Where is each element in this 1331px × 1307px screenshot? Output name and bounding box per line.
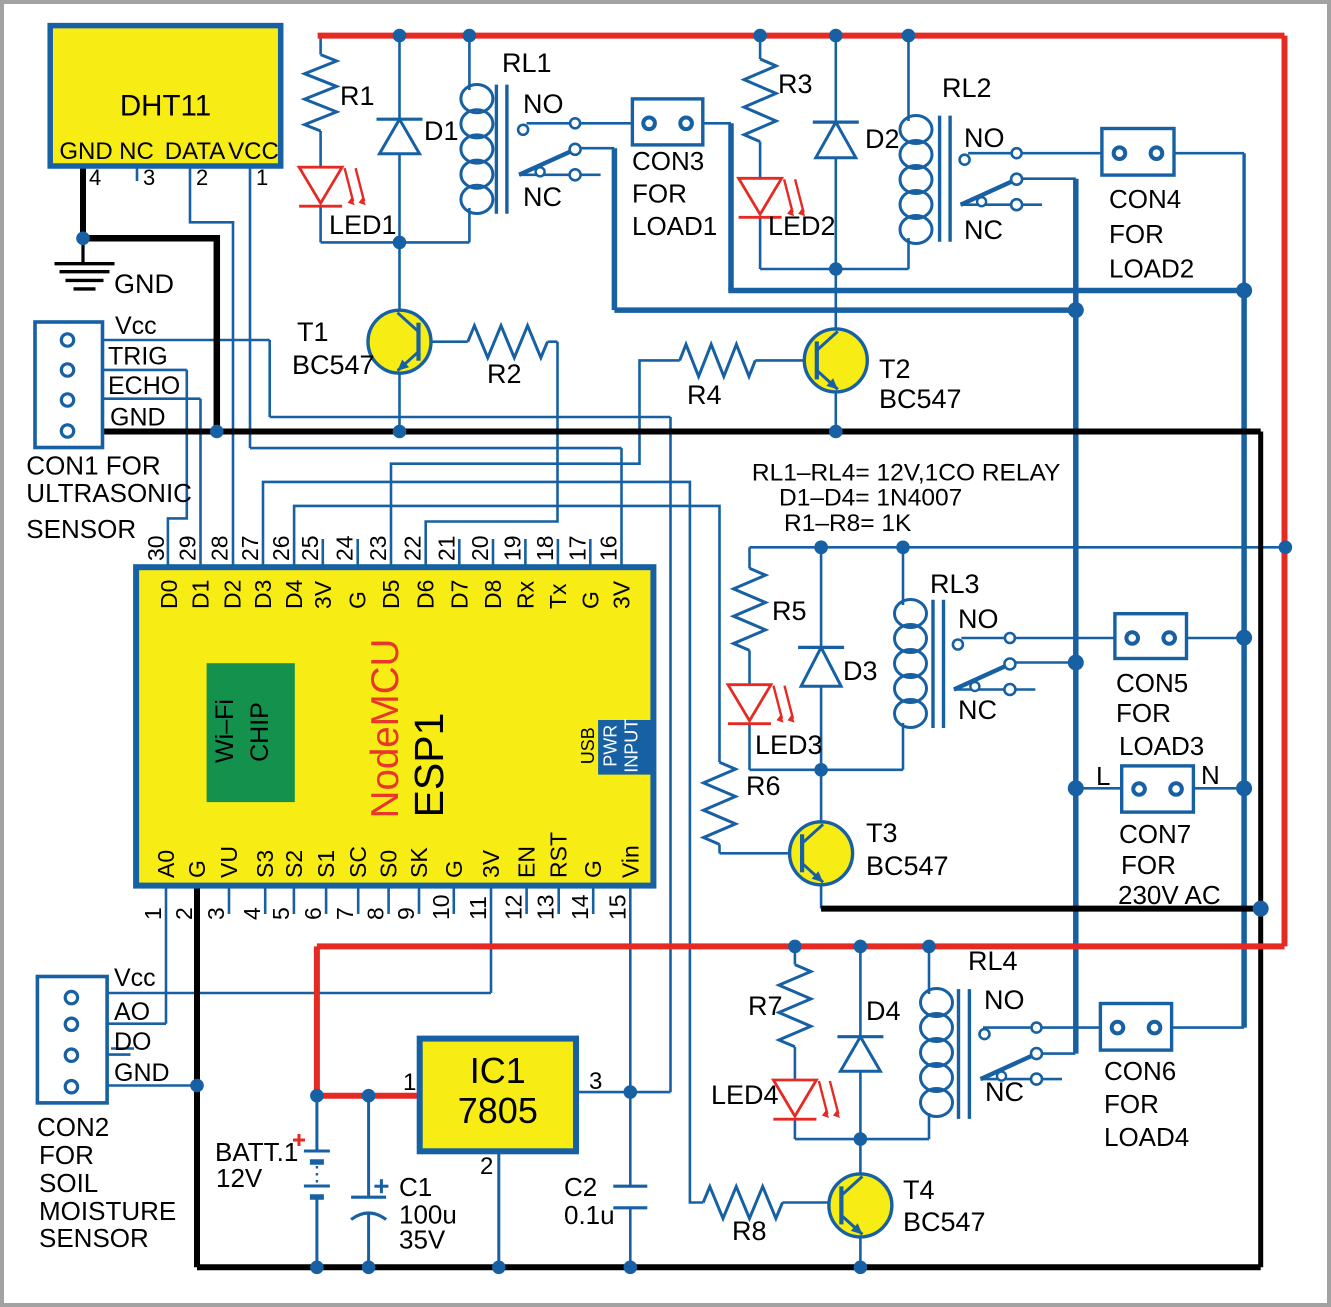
svg-text:AO: AO <box>114 998 150 1026</box>
svg-text:T3: T3 <box>866 818 898 848</box>
svg-text:G: G <box>345 591 371 609</box>
svg-text:14: 14 <box>567 894 593 920</box>
svg-text:27: 27 <box>237 535 263 561</box>
svg-text:NC: NC <box>985 1077 1024 1107</box>
svg-text:D1: D1 <box>424 116 459 146</box>
svg-text:S3: S3 <box>252 850 278 878</box>
svg-text:7: 7 <box>332 907 358 920</box>
svg-text:NC: NC <box>523 182 562 212</box>
svg-text:C2: C2 <box>564 1172 597 1202</box>
svg-text:G: G <box>580 860 606 878</box>
svg-text:R2: R2 <box>487 359 522 389</box>
svg-text:R1: R1 <box>340 81 375 111</box>
svg-text:3V: 3V <box>478 849 504 878</box>
svg-text:NO: NO <box>523 89 564 119</box>
svg-text:Vcc: Vcc <box>115 312 157 340</box>
svg-text:GND: GND <box>114 269 174 299</box>
svg-text:35V: 35V <box>399 1225 446 1255</box>
svg-text:25: 25 <box>297 535 323 561</box>
svg-text:R1–R8= 1K: R1–R8= 1K <box>784 510 912 537</box>
svg-text:NC: NC <box>958 695 997 725</box>
svg-text:24: 24 <box>332 535 358 561</box>
svg-text:GND: GND <box>59 138 112 165</box>
svg-text:1: 1 <box>403 1069 416 1096</box>
svg-text:VCC: VCC <box>228 138 279 165</box>
svg-text:4: 4 <box>89 165 101 190</box>
svg-text:L: L <box>1096 761 1110 791</box>
svg-text:D1–D4= 1N4007: D1–D4= 1N4007 <box>779 485 962 512</box>
svg-text:CON4: CON4 <box>1109 184 1181 214</box>
svg-text:CON3: CON3 <box>632 146 704 176</box>
svg-text:NO: NO <box>964 123 1005 153</box>
svg-text:2: 2 <box>196 165 208 190</box>
svg-text:NO: NO <box>958 604 999 634</box>
svg-text:0.1u: 0.1u <box>564 1200 615 1230</box>
svg-text:2: 2 <box>171 907 197 920</box>
svg-text:CHIP: CHIP <box>246 702 274 762</box>
svg-text:3V: 3V <box>609 580 635 609</box>
svg-text:D7: D7 <box>446 580 472 609</box>
svg-text:21: 21 <box>433 535 459 561</box>
svg-text:T2: T2 <box>879 354 911 384</box>
svg-text:SOIL: SOIL <box>39 1168 98 1198</box>
svg-text:4: 4 <box>239 907 265 920</box>
svg-text:CON2: CON2 <box>37 1112 109 1142</box>
svg-text:Rx: Rx <box>512 580 538 609</box>
svg-text:23: 23 <box>365 535 391 561</box>
svg-text:S1: S1 <box>313 850 339 878</box>
svg-text:FOR: FOR <box>632 179 687 209</box>
svg-text:G: G <box>184 860 210 878</box>
svg-text:15: 15 <box>604 894 630 920</box>
svg-text:LED3: LED3 <box>755 730 823 760</box>
svg-text:D3: D3 <box>250 580 276 609</box>
svg-text:6: 6 <box>300 907 326 920</box>
svg-text:16: 16 <box>596 535 622 561</box>
svg-text:ESP1: ESP1 <box>406 713 452 818</box>
svg-text:2: 2 <box>480 1153 493 1180</box>
svg-text:FOR: FOR <box>1109 219 1164 249</box>
svg-text:RL1–RL4= 12V,1CO RELAY: RL1–RL4= 12V,1CO RELAY <box>752 460 1061 487</box>
svg-text:26: 26 <box>268 535 294 561</box>
svg-text:22: 22 <box>400 535 426 561</box>
svg-text:D1: D1 <box>188 580 214 609</box>
svg-text:LED4: LED4 <box>711 1080 779 1110</box>
svg-text:3: 3 <box>589 1068 602 1095</box>
svg-text:GND: GND <box>110 404 166 432</box>
svg-text:12: 12 <box>501 894 527 920</box>
svg-text:N: N <box>1201 760 1220 790</box>
svg-text:3V: 3V <box>310 580 336 609</box>
svg-text:CON6: CON6 <box>1104 1056 1176 1086</box>
svg-text:19: 19 <box>499 535 525 561</box>
svg-text:R4: R4 <box>687 380 722 410</box>
svg-text:G: G <box>577 591 603 609</box>
svg-text:1: 1 <box>140 907 166 920</box>
svg-text:Vcc: Vcc <box>114 964 156 992</box>
svg-text:FOR: FOR <box>1104 1089 1159 1119</box>
svg-text:IC1: IC1 <box>470 1050 526 1091</box>
svg-text:5: 5 <box>268 907 294 920</box>
svg-text:CON7: CON7 <box>1119 819 1191 849</box>
svg-text:D4: D4 <box>866 996 901 1026</box>
svg-text:RL2: RL2 <box>942 73 992 103</box>
svg-text:10: 10 <box>428 894 454 920</box>
svg-text:D8: D8 <box>480 580 506 609</box>
svg-text:BC547: BC547 <box>903 1207 986 1237</box>
svg-text:BC547: BC547 <box>879 384 962 414</box>
svg-text:SENSOR: SENSOR <box>26 514 136 544</box>
svg-text:LOAD3: LOAD3 <box>1119 731 1204 761</box>
svg-text:D2: D2 <box>220 580 246 609</box>
svg-text:DHT11: DHT11 <box>120 90 211 123</box>
svg-text:RST: RST <box>546 832 572 878</box>
svg-text:SENSOR: SENSOR <box>39 1223 149 1253</box>
svg-text:T1: T1 <box>297 317 329 347</box>
svg-text:ECHO: ECHO <box>108 372 180 400</box>
svg-text:8: 8 <box>363 907 389 920</box>
svg-text:R6: R6 <box>746 771 781 801</box>
svg-text:NO: NO <box>984 985 1025 1015</box>
svg-text:R5: R5 <box>772 596 807 626</box>
svg-text:RL1: RL1 <box>502 48 552 78</box>
svg-text:LOAD1: LOAD1 <box>632 211 717 241</box>
svg-text:3: 3 <box>203 907 229 920</box>
svg-text:GND: GND <box>114 1059 170 1087</box>
svg-text:EN: EN <box>514 846 540 878</box>
svg-text:9: 9 <box>393 907 419 920</box>
svg-text:13: 13 <box>533 894 559 920</box>
svg-text:PWR: PWR <box>601 725 621 767</box>
svg-text:TRIG: TRIG <box>108 343 168 371</box>
svg-text:FOR: FOR <box>39 1140 94 1170</box>
svg-text:BC547: BC547 <box>292 350 375 380</box>
svg-text:17: 17 <box>564 535 590 561</box>
svg-text:LOAD4: LOAD4 <box>1104 1122 1189 1152</box>
svg-text:FOR: FOR <box>1121 850 1176 880</box>
svg-text:Wi–Fi: Wi–Fi <box>211 699 239 763</box>
svg-text:Vin: Vin <box>617 845 643 878</box>
svg-text:1: 1 <box>256 165 268 190</box>
svg-text:230V AC: 230V AC <box>1118 880 1221 910</box>
svg-text:NodeMCU: NodeMCU <box>364 639 407 819</box>
svg-text:29: 29 <box>175 535 201 561</box>
svg-text:S0: S0 <box>376 850 402 878</box>
svg-text:11: 11 <box>465 896 491 920</box>
svg-text:DO: DO <box>114 1028 152 1056</box>
svg-text:7805: 7805 <box>458 1090 538 1131</box>
svg-text:RL3: RL3 <box>930 569 980 599</box>
svg-text:T4: T4 <box>903 1175 935 1205</box>
svg-text:R8: R8 <box>732 1216 767 1246</box>
svg-text:BC547: BC547 <box>866 851 949 881</box>
svg-text:28: 28 <box>207 535 233 561</box>
svg-text:D0: D0 <box>156 580 182 609</box>
svg-text:LOAD2: LOAD2 <box>1109 254 1194 284</box>
svg-text:D2: D2 <box>865 124 900 154</box>
svg-text:DATA: DATA <box>165 138 225 165</box>
svg-text:Tx: Tx <box>545 583 571 609</box>
svg-text:G: G <box>441 860 467 878</box>
svg-text:SK: SK <box>406 847 432 878</box>
svg-text:S2: S2 <box>281 850 307 878</box>
svg-text:D3: D3 <box>843 656 878 686</box>
svg-text:LED1: LED1 <box>329 210 397 240</box>
svg-text:C1: C1 <box>399 1172 432 1202</box>
svg-text:NC: NC <box>964 215 1003 245</box>
svg-text:CON1 FOR: CON1 FOR <box>26 450 160 480</box>
svg-text:R3: R3 <box>778 69 813 99</box>
svg-text:SC: SC <box>345 846 371 878</box>
svg-text:R7: R7 <box>748 991 783 1021</box>
svg-text:INPUT: INPUT <box>622 719 642 773</box>
svg-text:LED2: LED2 <box>768 211 836 241</box>
svg-text:ULTRASONIC: ULTRASONIC <box>26 478 192 508</box>
svg-text:VU: VU <box>216 846 242 878</box>
svg-text:D4: D4 <box>281 579 307 609</box>
svg-text:FOR: FOR <box>1116 698 1171 728</box>
svg-text:NC: NC <box>119 138 154 165</box>
svg-text:A0: A0 <box>153 850 179 878</box>
svg-text:CON5: CON5 <box>1116 668 1188 698</box>
svg-text:MOISTURE: MOISTURE <box>39 1196 176 1226</box>
svg-text:18: 18 <box>532 535 558 561</box>
svg-text:12V: 12V <box>216 1163 263 1193</box>
svg-text:USB: USB <box>578 727 598 764</box>
svg-text:D5: D5 <box>378 580 404 609</box>
svg-text:3: 3 <box>143 165 155 190</box>
svg-text:D6: D6 <box>413 580 439 609</box>
svg-text:20: 20 <box>467 535 493 561</box>
svg-text:30: 30 <box>143 535 169 561</box>
svg-text:RL4: RL4 <box>968 946 1018 976</box>
